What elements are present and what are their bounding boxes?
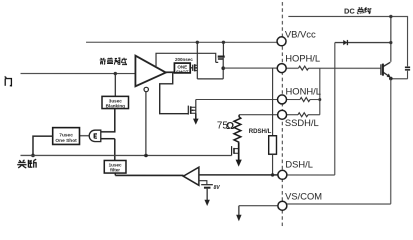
wire gate tap to M2 <box>156 53 218 66</box>
wire shutdown line <box>20 154 231 156</box>
label men (gate) <box>5 76 12 85</box>
label guan duan (shutdown) <box>17 159 37 168</box>
pin VS/COM <box>278 201 287 210</box>
diode desat <box>343 40 347 45</box>
label qian zhi qu dong (predriver) <box>100 58 127 65</box>
wire rail drop M1 <box>196 42 198 79</box>
pin DSH/L <box>278 170 287 179</box>
op-amp predriver <box>135 56 165 87</box>
wire VB internal rail <box>86 41 277 43</box>
wire gate node vertical <box>319 68 321 115</box>
wire pin boundary dashed <box>281 2 283 226</box>
node rail-M2 <box>222 41 225 44</box>
wire DSH pin to comparator <box>199 174 278 176</box>
wire DSH external <box>286 174 335 176</box>
wire desat top link <box>335 42 391 44</box>
svg-text:One Shot: One Shot <box>55 138 77 144</box>
wire HOP external to IGBT gate <box>286 67 380 69</box>
box 1usec filter <box>104 160 126 173</box>
wire RDSH top lead <box>272 68 274 136</box>
wire desat vertical <box>334 43 336 175</box>
wire HON internal <box>196 98 278 100</box>
resistor RDSH/L <box>269 136 277 155</box>
node bubble <box>144 87 148 91</box>
wire battery arrow <box>206 189 208 201</box>
wire M3 source arrow <box>195 113 197 119</box>
svg-text:8V: 8V <box>214 185 221 191</box>
box one shot <box>174 63 190 74</box>
wire bottom link <box>197 78 223 80</box>
svg-text:SHOT: SHOT <box>176 69 189 74</box>
wire oneshot to AND <box>80 135 89 137</box>
svg-text:VB/Vcc: VB/Vcc <box>285 28 316 39</box>
wire DSH internal (comparator out) <box>115 174 183 176</box>
node bus-collector <box>389 15 392 18</box>
box 3usec blanking <box>102 96 129 108</box>
wire collector drop <box>390 16 392 61</box>
svg-text:DC: DC <box>344 7 355 16</box>
wire SSD internal <box>239 114 277 116</box>
transistor M3 <box>188 106 196 115</box>
battery 8V <box>201 185 213 188</box>
svg-text:SSDH/L: SSDH/L <box>285 117 319 128</box>
wire M4 drain-source vertical <box>238 142 240 160</box>
node oneshot-shutdown <box>31 154 35 158</box>
wire filter to AND <box>101 139 115 161</box>
wire oneshot output to shutdown <box>33 136 53 155</box>
node rail-M1 <box>196 41 199 44</box>
svg-text:Ω: Ω <box>226 121 234 132</box>
wire gate input line <box>21 73 136 75</box>
pin SSDH/L <box>278 110 287 119</box>
op-amp desat comparator <box>183 167 199 185</box>
wire filter bottom stub <box>114 173 116 175</box>
node HON join <box>318 98 321 101</box>
svg-text:HONH/L: HONH/L <box>286 85 321 96</box>
resistor RSSD <box>298 113 308 117</box>
node bubble-shutdown <box>144 154 148 158</box>
wire driver output <box>165 71 175 73</box>
gate AND (pointing left) <box>89 130 101 141</box>
transistor M1 <box>190 64 197 71</box>
wire M3 drain to HON <box>195 99 197 113</box>
pin HOPH/L <box>277 64 286 73</box>
svg-text:DSH/L: DSH/L <box>285 158 313 169</box>
svg-text:HOPH/L: HOPH/L <box>285 53 320 64</box>
wire blanking to AND <box>101 109 115 132</box>
node RDSH-DSH <box>271 173 274 176</box>
wire M4 source arrow <box>236 160 242 167</box>
resistor RGOFF <box>300 98 310 102</box>
svg-text:RDSH/L: RDSH/L <box>249 128 272 135</box>
svg-text:filter: filter <box>110 168 120 173</box>
pin HONH/L <box>278 95 287 104</box>
svg-text:Blanking: Blanking <box>106 104 126 109</box>
wire output jog to M3 gate <box>160 72 189 113</box>
wire DC bus top <box>288 16 407 78</box>
node desat-collector <box>389 41 392 44</box>
transistor M4 <box>232 146 239 155</box>
node gate-blanking <box>114 72 117 75</box>
wire emitter down <box>390 78 392 203</box>
wire comparator ref stub <box>199 181 207 185</box>
resistor 75ohm <box>234 115 241 143</box>
svg-text:7usec: 7usec <box>59 132 73 138</box>
transistor M2 <box>218 42 225 79</box>
wire HOP internal <box>223 67 277 69</box>
wire VS internal <box>239 205 278 207</box>
pin VB/Vcc <box>277 37 286 46</box>
transistor IGBT <box>381 62 391 77</box>
svg-text:200nsec: 200nsec <box>175 57 193 62</box>
wire SSD external <box>286 114 320 116</box>
wire blanking feed <box>114 74 116 97</box>
wire VS arrow <box>238 206 240 216</box>
wire RDSH bottom lead <box>272 154 274 175</box>
capacitor bus cap <box>405 67 410 70</box>
svg-text:VS/COM: VS/COM <box>285 190 322 201</box>
wire VS external <box>287 203 391 205</box>
node M2 drain HOP <box>221 66 225 70</box>
wire bubble stem <box>145 92 147 156</box>
wire HON external <box>286 99 320 101</box>
node emitter <box>389 77 393 81</box>
resistor RGON <box>299 66 309 70</box>
box 7usec one shot <box>53 128 80 145</box>
